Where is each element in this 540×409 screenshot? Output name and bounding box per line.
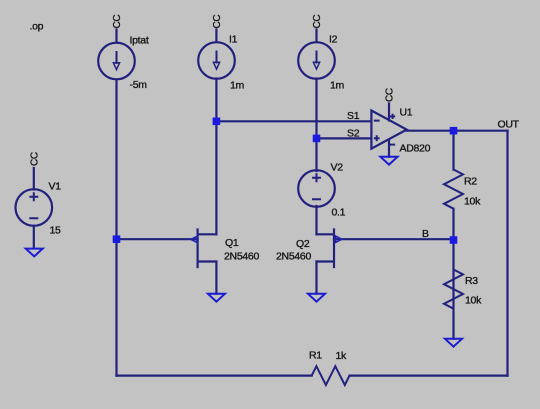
svg-text:U1: U1 bbox=[400, 107, 413, 119]
svg-text:AD820: AD820 bbox=[400, 143, 431, 155]
svg-text:S2: S2 bbox=[347, 128, 360, 140]
svg-text:2N5460: 2N5460 bbox=[276, 251, 311, 263]
svg-text:10k: 10k bbox=[464, 196, 481, 208]
svg-text:V1: V1 bbox=[49, 181, 62, 193]
svg-text:R2: R2 bbox=[464, 176, 477, 188]
svg-text:Iptat: Iptat bbox=[130, 35, 149, 47]
svg-text:CC: CC bbox=[112, 15, 123, 29]
svg-text:CC: CC bbox=[312, 15, 323, 29]
svg-text:B: B bbox=[422, 228, 429, 240]
svg-text:1m: 1m bbox=[230, 80, 245, 92]
svg-text:CC: CC bbox=[212, 15, 223, 29]
svg-text:Q1: Q1 bbox=[225, 237, 239, 249]
svg-text:0.1: 0.1 bbox=[332, 207, 346, 219]
svg-text:OUT: OUT bbox=[498, 119, 520, 131]
svg-text:I2: I2 bbox=[329, 34, 338, 46]
svg-text:I1: I1 bbox=[229, 34, 238, 46]
svg-text:R3: R3 bbox=[465, 275, 478, 287]
svg-text:2N5460: 2N5460 bbox=[224, 251, 259, 263]
svg-text:CC: CC bbox=[385, 88, 396, 102]
svg-text:S1: S1 bbox=[347, 110, 360, 122]
svg-text:1k: 1k bbox=[336, 350, 348, 362]
svg-text:1m: 1m bbox=[330, 80, 345, 92]
svg-text:10k: 10k bbox=[465, 295, 482, 307]
svg-text:-5m: -5m bbox=[130, 79, 148, 91]
svg-text:.op: .op bbox=[30, 21, 44, 33]
svg-text:15: 15 bbox=[50, 225, 62, 237]
svg-text:R1: R1 bbox=[309, 350, 322, 362]
svg-text:CC: CC bbox=[29, 152, 40, 166]
svg-text:V2: V2 bbox=[331, 162, 344, 174]
svg-text:Q2: Q2 bbox=[296, 238, 310, 250]
